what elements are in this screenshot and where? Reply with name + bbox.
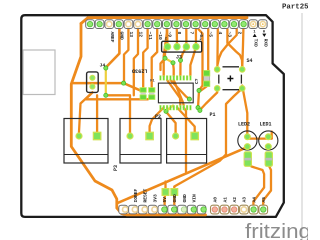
IC U1 top pads — [160, 76, 192, 81]
LED2 leg pad — [244, 152, 251, 167]
terminal P2 pad 2 — [146, 132, 153, 139]
connector J4 pad 1 — [90, 75, 95, 80]
wire via GND stub — [173, 192, 175, 206]
header J2 pin IOREF — [129, 205, 138, 214]
svg-text:4: 4 — [217, 32, 223, 35]
wire top pad 5 sweep — [218, 29, 237, 64]
wire top pad 4 to cap pad TL — [216, 29, 219, 67]
wire via B to IC — [179, 60, 181, 76]
terminal P3 pad 1 — [76, 133, 82, 139]
IC U1 bottom pads — [160, 105, 192, 110]
wire jumper below J3 — [165, 58, 173, 63]
header J2 pin NC — [119, 205, 128, 214]
via E below D — [196, 106, 200, 110]
svg-text:A1: A1 — [222, 197, 228, 203]
capacitor C1 pad bottom — [140, 95, 146, 100]
resistor R1 pad bottom — [204, 81, 210, 87]
wire via 5V stub — [163, 182, 166, 207]
wire top pad 6 to C3 top — [207, 29, 209, 71]
header bottom power row — [119, 205, 207, 214]
wire IC inner diagonal 3 — [174, 80, 184, 106]
wire IC inner diagonal 1 — [167, 80, 180, 106]
svg-text:A4: A4 — [251, 197, 257, 203]
svg-text:L293D: L293D — [132, 68, 148, 74]
terminal P3 outline — [64, 119, 108, 164]
wire J3 pin3 to via B — [181, 47, 187, 60]
terminal P2 divider — [120, 154, 161, 156]
wire cap BR to GND diagonal — [174, 88, 242, 192]
svg-text:J4: J4 — [100, 63, 106, 69]
wire via to P2 square pad — [96, 95, 98, 136]
via left of C1 — [122, 81, 126, 85]
wire long diagonal LED2 to bottom loop — [118, 147, 248, 203]
capacitor C6 outline right — [240, 75, 242, 84]
header J5 pin A3 — [240, 205, 249, 214]
wire J4 row horizontal — [72, 83, 140, 90]
svg-text:~5: ~5 — [208, 32, 214, 38]
capacitor C1 pad top — [140, 88, 146, 93]
svg-text:GND: GND — [118, 32, 124, 41]
wire top pad 11 to C1 — [143, 29, 147, 88]
wire IC pin long drop — [184, 108, 186, 172]
capacitor C2 body — [149, 89, 155, 98]
wire top pad to J3 pin1 — [166, 29, 168, 47]
svg-text:A0: A0 — [213, 197, 219, 203]
svg-text:S4: S4 — [247, 58, 253, 64]
wire top pad 3 to cap pad TR — [227, 29, 242, 67]
header J1 pin TXD1 — [249, 20, 258, 29]
via A below J3 — [163, 56, 167, 60]
terminal P2 outline — [120, 119, 161, 164]
via D right of IC — [197, 88, 201, 92]
LED2 pad top — [245, 134, 251, 140]
svg-text:RESET: RESET — [143, 188, 149, 202]
svg-text:A3: A3 — [242, 197, 248, 203]
header J1 pin extra — [239, 20, 248, 29]
connector J3 pad 2 — [174, 44, 180, 50]
svg-text:GND: GND — [172, 194, 178, 203]
wire via to P2 circle pad — [106, 95, 130, 136]
wire IC pin to P2 square pad — [150, 108, 164, 137]
wire LED2 pad to A4 — [248, 163, 264, 208]
svg-text:5V: 5V — [162, 197, 168, 203]
header J1 pin AREF — [105, 20, 114, 29]
wire jumper J4 vertical — [105, 68, 107, 95]
svg-text:LED1: LED1 — [260, 122, 272, 128]
terminal P1 outline — [167, 119, 207, 164]
LED1 pad bottom — [265, 144, 271, 150]
svg-text:2: 2 — [200, 38, 202, 42]
USB connector outline — [23, 50, 55, 95]
capacitor C6 pad BL — [214, 86, 220, 92]
header J1 pin ~5 — [201, 20, 210, 29]
wire J4 pad2 to P3 pad — [79, 92, 92, 136]
header J1 pin ~10 — [153, 20, 162, 29]
header J1 pin 12 — [134, 20, 143, 29]
capacitor C6 pad TL — [214, 67, 220, 73]
terminal P2 pad 1 — [127, 133, 133, 139]
header J1 pin ~3 — [220, 20, 229, 29]
wire LED2 top to LED1 top — [247, 137, 271, 139]
header J1 pin SDA — [95, 20, 104, 29]
connector J3 pad 3 — [183, 44, 189, 50]
header J2 pin 5V — [158, 205, 167, 214]
wire via C to IC — [172, 63, 175, 76]
header J2 pin RESET — [138, 205, 147, 214]
header J5 pin A5 — [259, 205, 268, 214]
wire top rail — [81, 18, 247, 24]
svg-text:F1: F1 — [150, 80, 155, 84]
terminal P3 divider — [64, 154, 108, 156]
svg-text:2: 2 — [165, 38, 167, 42]
header J5 pin A2 — [230, 205, 239, 214]
wire top pad to J3 pin2 — [176, 29, 178, 47]
header J2 pin 3V3 — [148, 205, 157, 214]
header J1 pin GND — [115, 20, 124, 29]
connector J4 outline — [87, 72, 99, 93]
LED2 leg stripe — [244, 158, 251, 161]
svg-text:P1: P1 — [210, 112, 216, 118]
LED2 pad bottom — [245, 144, 251, 150]
capacitor C6 pad TR — [239, 67, 245, 73]
header J5 pin A0 — [211, 205, 220, 214]
svg-text:~6: ~6 — [198, 32, 204, 38]
header J1 pin 2 — [230, 20, 239, 29]
svg-text:~11: ~11 — [147, 32, 153, 41]
wire TX pad to S4 top — [242, 18, 246, 69]
pad GND jumper — [171, 189, 178, 196]
wire IC pin to P1 square pad — [177, 108, 195, 137]
capacitor C2 pad top — [149, 88, 155, 93]
wire J3 pin1 to via A — [165, 47, 168, 58]
svg-text:~10: ~10 — [157, 32, 163, 41]
wire IC pin to P1 circle pad — [167, 108, 176, 137]
wire cap BL to via P1 — [200, 88, 217, 110]
header J5 pin A1 — [220, 205, 229, 214]
connector J3 pad 4 — [193, 44, 199, 50]
svg-text:LED2: LED2 — [238, 122, 250, 128]
LED1 leg stripe — [265, 158, 272, 161]
capacitor C6 outline bottom — [223, 89, 240, 91]
pad 5V jumper — [162, 189, 169, 196]
wire left trunk — [71, 24, 205, 215]
svg-text:7: 7 — [188, 32, 194, 35]
LED1 circle — [259, 131, 278, 150]
header J1 pin SCL — [86, 20, 95, 29]
wire J4 lower horizontal — [86, 92, 153, 99]
header J1 pin RXD0 — [258, 20, 267, 29]
header J1 pin 7 — [182, 20, 191, 29]
via dots — [104, 56, 202, 113]
wire jumper IC bottom — [166, 106, 173, 112]
LED2 circle — [238, 131, 257, 150]
via IC corner — [187, 97, 191, 101]
svg-text:IOREF: IOREF — [133, 188, 139, 202]
wire LED1 pad to A5 — [263, 166, 271, 209]
svg-text:RXD: RXD — [262, 39, 267, 47]
header J1 top row tiles — [86, 20, 267, 29]
svg-text:J3: J3 — [176, 55, 182, 61]
capacitor C6 plus mark — [227, 76, 233, 82]
wire LED1 stub up — [271, 132, 273, 139]
via P1 top — [198, 108, 202, 112]
wire via D to via E — [198, 91, 199, 108]
wire GND drop to J4 via — [106, 22, 120, 68]
connector J4 pad 2 — [90, 84, 95, 89]
IC U1 body — [158, 83, 193, 103]
svg-text:Part25: Part25 — [282, 4, 308, 12]
header J1 pin ~6 — [191, 20, 200, 29]
svg-text:3V3: 3V3 — [152, 194, 158, 203]
via yellow IC end — [164, 109, 168, 113]
resistor R1 body — [204, 71, 210, 87]
via C below J3 — [171, 61, 175, 65]
header J2 pin extra — [197, 205, 206, 214]
connector J3 outline — [162, 41, 202, 52]
wire J3 pin4 to IC — [190, 47, 196, 76]
via J4 top — [104, 66, 108, 70]
terminal P1 pad 1 — [173, 133, 179, 139]
header J1 pin 8 — [172, 20, 181, 29]
wire S4 to LED2 top — [242, 86, 247, 138]
svg-text:C?: C? — [194, 78, 200, 84]
capacitor C6 outline left — [218, 75, 220, 84]
svg-text:fritzing: fritzing — [245, 221, 308, 240]
wire top pad 9 to IC pin2 — [164, 29, 167, 76]
svg-text:~9: ~9 — [166, 32, 172, 38]
capacitor C1 body — [140, 89, 146, 98]
svg-text:AREF: AREF — [109, 32, 115, 43]
terminal P1 pad 2 — [191, 132, 198, 139]
wire top pad 10 to C2 — [152, 29, 158, 88]
terminal P3 pad 2 — [93, 132, 100, 139]
wire via A to IC — [161, 58, 166, 70]
LED1 leg pad — [265, 152, 272, 167]
capacitor C2 pad bottom — [149, 95, 155, 100]
header J1 pin 4 — [211, 20, 220, 29]
header J2 pin VIN — [187, 205, 196, 214]
wire top pad 7 to via D — [198, 29, 202, 91]
wire top pad to J3 pin3 — [185, 29, 187, 47]
wire top pad to J3 pin4 — [195, 29, 197, 47]
svg-text:12: 12 — [138, 32, 144, 38]
svg-text:8: 8 — [176, 32, 182, 35]
capacitor C6 outline top — [223, 66, 240, 68]
wire top pad 12 drop — [134, 29, 138, 95]
header bottom analog row — [211, 205, 268, 214]
svg-text:GND: GND — [182, 194, 188, 203]
svg-text:VIN: VIN — [192, 194, 198, 203]
LED1 pad top — [265, 134, 271, 140]
header J5 pin A4 — [249, 205, 258, 214]
wire C3 bottom to via D — [199, 87, 207, 91]
header J2 pin GND2 — [178, 205, 187, 214]
terminal P1 divider — [167, 154, 207, 156]
svg-text:P2: P2 — [155, 114, 161, 120]
svg-text:P3: P3 — [113, 165, 119, 171]
header J2 pin GND — [168, 205, 177, 214]
wire IC inner diagonal 2 — [170, 80, 189, 99]
resistor R1 pad top — [204, 71, 210, 77]
capacitor C6 pad BR — [239, 86, 245, 92]
header J1 pin ~9 — [163, 20, 172, 29]
via B below J3 — [178, 58, 182, 62]
svg-text:A5: A5 — [261, 197, 267, 203]
svg-text:TXD: TXD — [253, 39, 258, 47]
header J1 pin 13 — [124, 20, 133, 29]
board outline — [21, 15, 284, 217]
svg-text:A2: A2 — [232, 197, 238, 203]
panel divider line — [301, 13, 303, 240]
svg-text:2: 2 — [236, 32, 242, 35]
svg-text:~3: ~3 — [227, 32, 233, 38]
via J4 bottom — [104, 93, 108, 97]
wire top pad 13 drop — [124, 29, 128, 83]
connector J3 pad 1 — [164, 44, 170, 50]
svg-text:13: 13 — [128, 32, 134, 38]
header J1 pin ~11 — [143, 20, 152, 29]
